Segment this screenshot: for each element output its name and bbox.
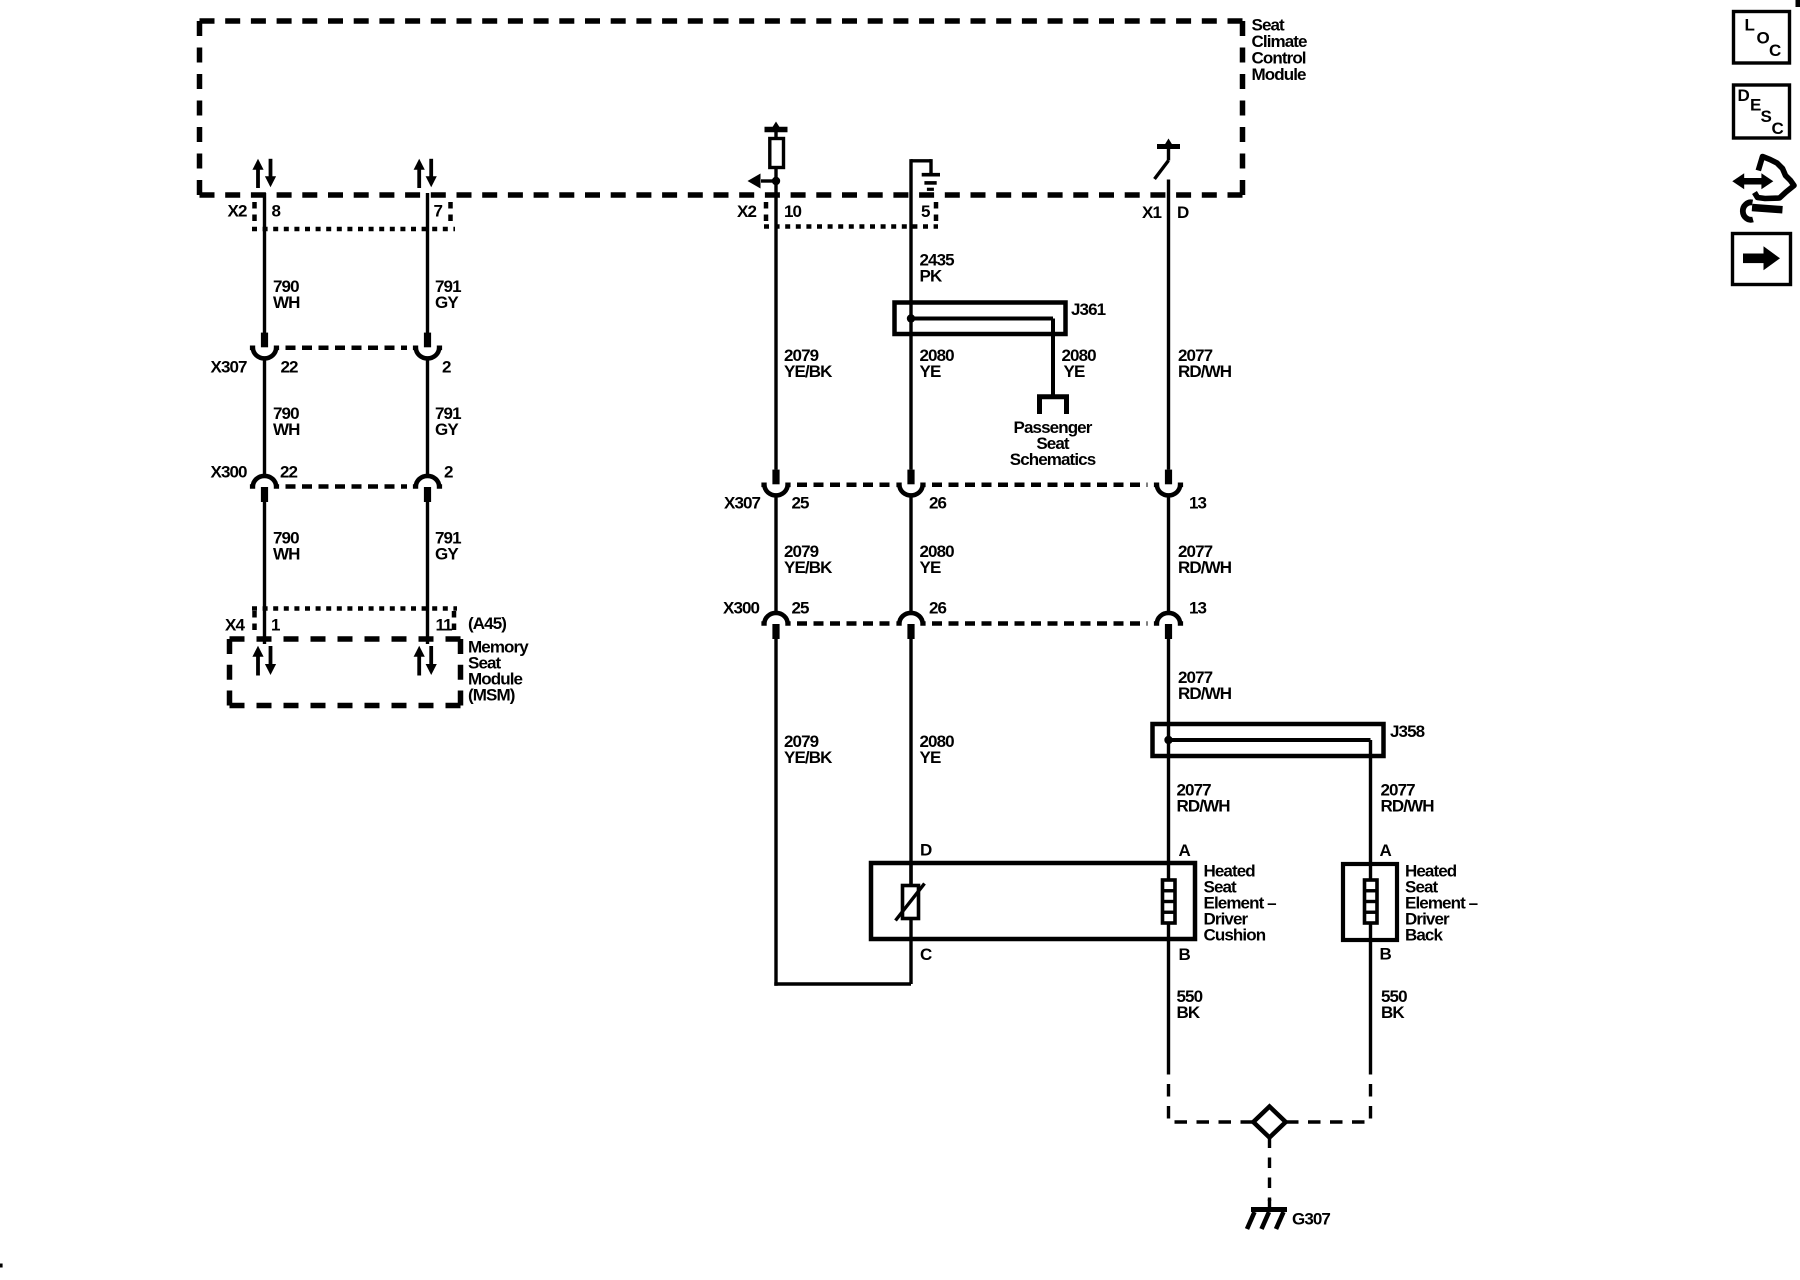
svg-text:B: B xyxy=(1179,945,1191,964)
svg-text:X300: X300 xyxy=(723,599,760,618)
svg-text:BK: BK xyxy=(1381,1003,1405,1022)
svg-text:X4: X4 xyxy=(225,615,245,634)
svg-text:S: S xyxy=(1761,107,1772,126)
svg-text:RD/WH: RD/WH xyxy=(1178,684,1232,703)
svg-text:GY: GY xyxy=(435,293,459,312)
svg-text:11: 11 xyxy=(436,615,453,634)
svg-text:Back: Back xyxy=(1405,925,1443,944)
svg-text:X1: X1 xyxy=(1142,203,1161,222)
svg-text:C: C xyxy=(1772,119,1784,138)
svg-text:PK: PK xyxy=(920,266,943,285)
svg-text:J358: J358 xyxy=(1390,722,1425,741)
svg-text:X307: X307 xyxy=(724,493,761,512)
svg-text:26: 26 xyxy=(929,599,947,618)
svg-text:X300: X300 xyxy=(211,462,248,481)
svg-text:WH: WH xyxy=(273,420,300,439)
svg-text:WH: WH xyxy=(273,293,300,312)
svg-text:YE: YE xyxy=(920,362,941,381)
svg-text:YE/BK: YE/BK xyxy=(784,558,833,577)
svg-text:X307: X307 xyxy=(211,357,248,376)
svg-text:8: 8 xyxy=(272,201,281,220)
svg-text:D: D xyxy=(1738,86,1750,105)
svg-text:25: 25 xyxy=(792,599,810,618)
svg-text:G307: G307 xyxy=(1292,1209,1330,1228)
svg-text:10: 10 xyxy=(784,202,802,221)
svg-text:7: 7 xyxy=(434,201,443,220)
svg-text:C: C xyxy=(920,945,932,964)
svg-text:13: 13 xyxy=(1189,599,1207,618)
svg-text:13: 13 xyxy=(1189,493,1207,512)
svg-text:L: L xyxy=(1745,16,1755,35)
svg-text:B: B xyxy=(1380,944,1392,963)
svg-text:25: 25 xyxy=(792,493,810,512)
svg-text:RD/WH: RD/WH xyxy=(1178,362,1232,381)
svg-text:RD/WH: RD/WH xyxy=(1178,558,1232,577)
svg-text:5: 5 xyxy=(921,202,930,221)
svg-text:WH: WH xyxy=(273,544,300,563)
svg-text:BK: BK xyxy=(1177,1003,1201,1022)
svg-text:2: 2 xyxy=(442,357,451,376)
svg-text:YE: YE xyxy=(920,558,941,577)
svg-text:D: D xyxy=(1177,203,1189,222)
svg-text:A: A xyxy=(1179,841,1191,860)
svg-text:C: C xyxy=(1769,41,1781,60)
svg-text:1: 1 xyxy=(271,615,280,634)
svg-text:Cushion: Cushion xyxy=(1204,925,1266,944)
svg-text:YE/BK: YE/BK xyxy=(784,748,833,767)
svg-text:GY: GY xyxy=(435,420,459,439)
svg-text:GY: GY xyxy=(435,544,459,563)
svg-text:X2: X2 xyxy=(228,201,247,220)
svg-text:RD/WH: RD/WH xyxy=(1177,796,1231,815)
svg-text:O: O xyxy=(1757,28,1770,47)
svg-text:22: 22 xyxy=(281,357,299,376)
svg-text:26: 26 xyxy=(929,493,947,512)
svg-text:Module: Module xyxy=(1252,65,1307,84)
svg-text:Schematics: Schematics xyxy=(1010,450,1096,469)
svg-text:YE: YE xyxy=(1064,362,1085,381)
svg-text:YE: YE xyxy=(920,748,941,767)
svg-text:(A45): (A45) xyxy=(468,614,506,633)
svg-text:X2: X2 xyxy=(737,202,756,221)
svg-text:A: A xyxy=(1380,841,1392,860)
svg-text:RD/WH: RD/WH xyxy=(1381,796,1435,815)
svg-text:(MSM): (MSM) xyxy=(468,685,515,704)
svg-text:J361: J361 xyxy=(1071,300,1106,319)
svg-text:2: 2 xyxy=(444,462,453,481)
svg-text:D: D xyxy=(920,840,932,859)
svg-text:YE/BK: YE/BK xyxy=(784,362,833,381)
svg-text:22: 22 xyxy=(280,462,298,481)
svg-text:E: E xyxy=(1750,96,1761,115)
